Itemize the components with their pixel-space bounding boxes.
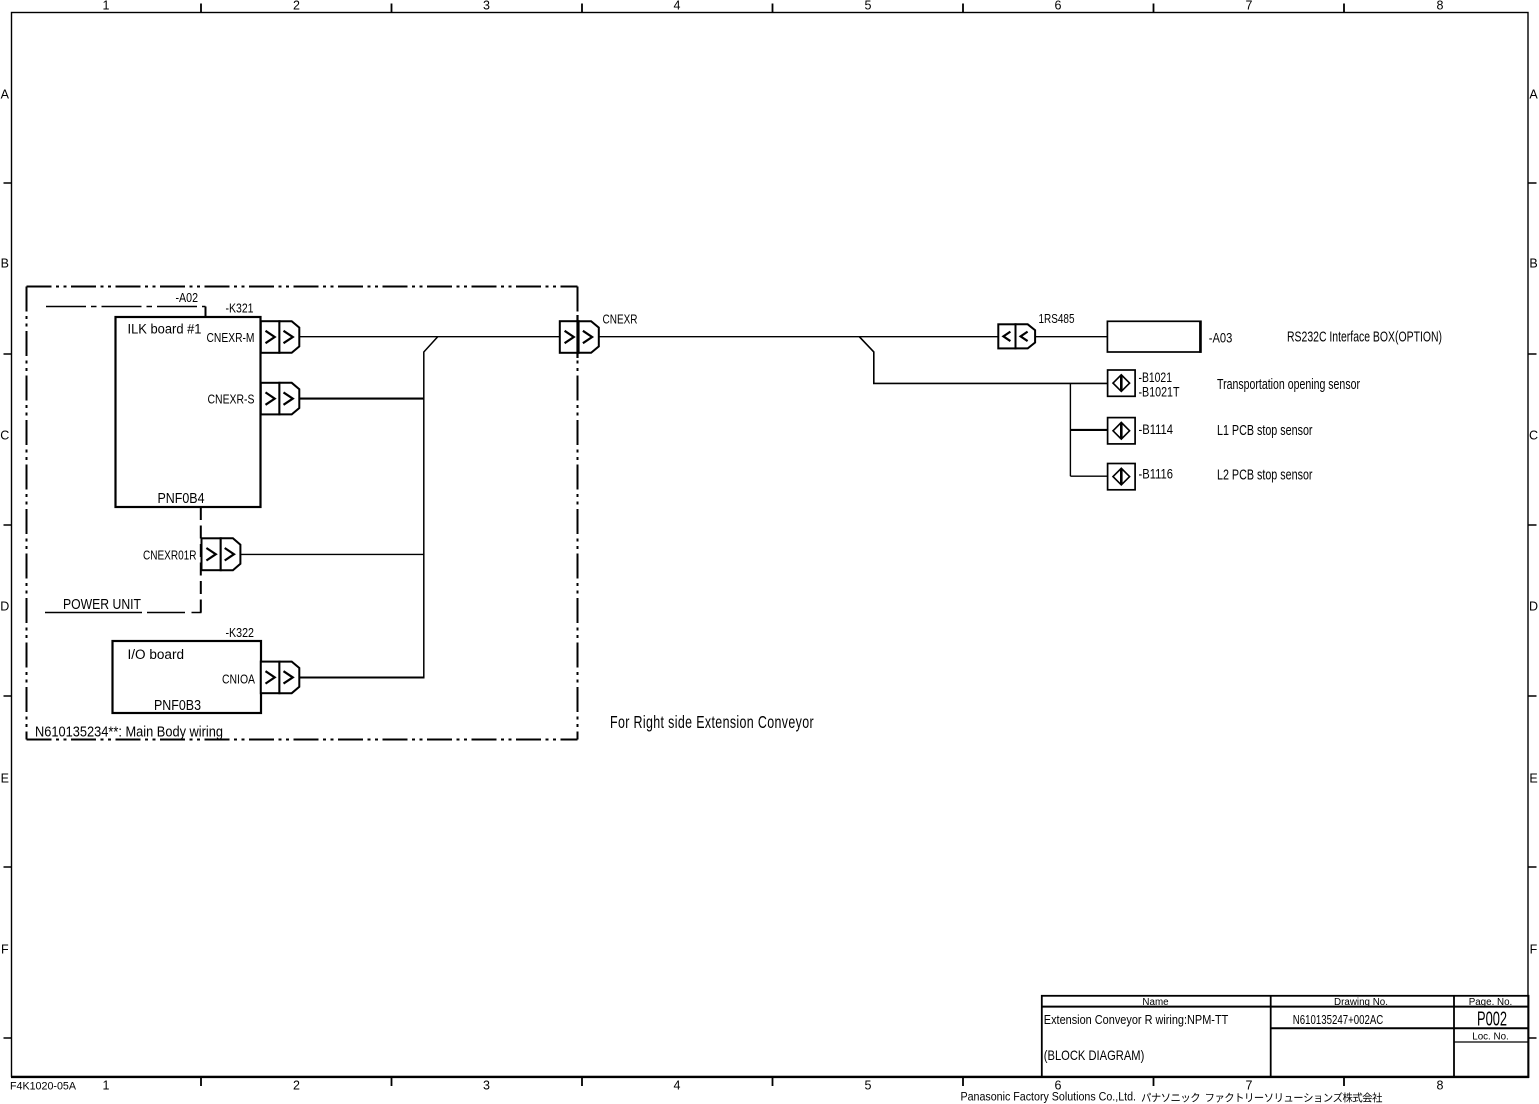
title block xyxy=(1042,996,1529,1077)
connector CNEXR-S xyxy=(261,383,280,415)
svg-text:2: 2 xyxy=(293,0,300,13)
svg-text:4: 4 xyxy=(674,0,681,13)
svg-text:L1 PCB stop sensor: L1 PCB stop sensor xyxy=(1217,423,1313,439)
footer company name (japanese) xyxy=(1142,1092,1382,1102)
wire jog from CNEXR-M wire down to bus xyxy=(424,337,438,678)
svg-text:(BLOCK DIAGRAM): (BLOCK DIAGRAM) xyxy=(1044,1047,1145,1063)
svg-text:F: F xyxy=(1,943,9,957)
svg-text:2: 2 xyxy=(293,1079,300,1093)
svg-text:N610135234**: Main Body wiring: N610135234**: Main Body wiring xyxy=(35,725,223,741)
RS232C interface box -A03 xyxy=(1107,321,1200,352)
connector CNEXR01R xyxy=(202,538,221,570)
svg-text:-K322: -K322 xyxy=(226,625,255,640)
connector 1RS485 xyxy=(998,324,1015,348)
POWER UNIT boundary chain line xyxy=(45,612,202,614)
svg-text:Transportation opening sensor: Transportation opening sensor xyxy=(1217,377,1360,393)
svg-text:3: 3 xyxy=(483,0,490,13)
wire to sensor B1114 xyxy=(1070,429,1107,431)
svg-text:For Right side Extension Conve: For Right side Extension Conveyor xyxy=(610,712,814,732)
svg-text:4: 4 xyxy=(674,1079,681,1093)
svg-text:3: 3 xyxy=(483,1079,490,1093)
svg-text:CNEXR-M: CNEXR-M xyxy=(207,330,255,345)
svg-text:7: 7 xyxy=(1246,0,1253,13)
svg-text:B: B xyxy=(1,257,9,271)
svg-text:ILK board #1: ILK board #1 xyxy=(128,322,202,337)
svg-text:N610135247+002AC: N610135247+002AC xyxy=(1293,1012,1384,1027)
ILK board K321 box xyxy=(116,317,261,507)
svg-text:7: 7 xyxy=(1246,1079,1253,1093)
svg-text:Panasonic Factory Solutions Co: Panasonic Factory Solutions Co.,Ltd. xyxy=(961,1090,1137,1104)
svg-text:-A03: -A03 xyxy=(1209,330,1233,346)
svg-text:POWER UNIT: POWER UNIT xyxy=(63,596,141,613)
boundary dash overlay on CNEXR connector xyxy=(576,315,578,358)
svg-text:CNEXR: CNEXR xyxy=(603,312,638,327)
I/O board K322 box xyxy=(113,641,262,713)
svg-text:1RS485: 1RS485 xyxy=(1039,311,1075,326)
svg-text:8: 8 xyxy=(1437,1079,1444,1093)
svg-text:C: C xyxy=(0,429,9,443)
svg-text:-A02: -A02 xyxy=(176,290,199,305)
svg-text:6: 6 xyxy=(1055,0,1062,13)
svg-text:E: E xyxy=(1529,772,1537,786)
svg-text:1: 1 xyxy=(103,0,110,13)
svg-text:Drawing No.: Drawing No. xyxy=(1334,997,1388,1008)
wire CNEXR-S to bus xyxy=(299,398,425,400)
svg-text:CNEXR01R: CNEXR01R xyxy=(143,548,197,563)
sensor bus vertical xyxy=(1069,383,1071,476)
svg-text:-B1021T: -B1021T xyxy=(1139,385,1180,400)
svg-text:CNEXR-S: CNEXR-S xyxy=(208,392,255,407)
wire CNIOA to bus xyxy=(299,676,425,678)
svg-text:Loc. No.: Loc. No. xyxy=(1472,1032,1509,1043)
svg-text:D: D xyxy=(0,600,9,614)
wire to sensor B1116 xyxy=(1070,475,1107,477)
wire CNEXR-M to CNEXR xyxy=(299,336,560,338)
svg-text:I/O board: I/O board xyxy=(128,647,185,662)
svg-text:Extension Conveyor R wiring:NP: Extension Conveyor R wiring:NPM-TT xyxy=(1044,1012,1229,1027)
connector CNEXR (straddles boundary) xyxy=(560,321,579,353)
svg-text:Name: Name xyxy=(1142,997,1169,1008)
svg-text:8: 8 xyxy=(1437,0,1444,13)
svg-text:P002: P002 xyxy=(1477,1008,1507,1031)
sensor -B1114 xyxy=(1108,418,1136,444)
svg-text:1: 1 xyxy=(103,1079,110,1093)
POWER UNIT region dashed vertical line xyxy=(200,507,202,613)
svg-text:B: B xyxy=(1529,257,1537,271)
svg-text:5: 5 xyxy=(865,1079,872,1093)
svg-text:CNIOA: CNIOA xyxy=(222,672,255,687)
svg-text:PNF0B4: PNF0B4 xyxy=(158,491,205,507)
svg-text:F4K1020-05A: F4K1020-05A xyxy=(10,1081,77,1093)
svg-text:D: D xyxy=(1529,600,1538,614)
svg-text:-B1114: -B1114 xyxy=(1139,422,1174,437)
svg-text:F: F xyxy=(1530,943,1538,957)
branch wire down to sensors xyxy=(859,337,1107,384)
main body wiring boundary box xyxy=(27,287,578,740)
connector CNEXR-M xyxy=(261,321,280,353)
svg-text:-B1021: -B1021 xyxy=(1139,370,1173,385)
region -A02 boundary chain line xyxy=(46,306,206,308)
svg-text:A: A xyxy=(1,88,10,102)
svg-text:Page. No.: Page. No. xyxy=(1469,997,1513,1008)
svg-text:-B1116: -B1116 xyxy=(1139,466,1174,481)
svg-text:-K321: -K321 xyxy=(226,301,254,316)
svg-text:5: 5 xyxy=(865,0,872,13)
svg-text:A: A xyxy=(1529,88,1538,102)
svg-text:RS232C Interface BOX(OPTION): RS232C Interface BOX(OPTION) xyxy=(1287,330,1442,346)
svg-text:L2 PCB stop sensor: L2 PCB stop sensor xyxy=(1217,468,1313,484)
wire 1RS485 to A03 box xyxy=(1035,336,1107,338)
sensor -B1021 xyxy=(1108,370,1136,396)
sensor -B1116 xyxy=(1108,464,1136,490)
wire CNEXR01R to bus xyxy=(240,553,424,555)
connector CNIOA xyxy=(261,662,280,694)
svg-text:E: E xyxy=(1,772,9,786)
svg-text:PNF0B3: PNF0B3 xyxy=(154,698,201,714)
wire CNEXR to 1RS485 xyxy=(599,336,999,338)
svg-text:C: C xyxy=(1529,429,1538,443)
